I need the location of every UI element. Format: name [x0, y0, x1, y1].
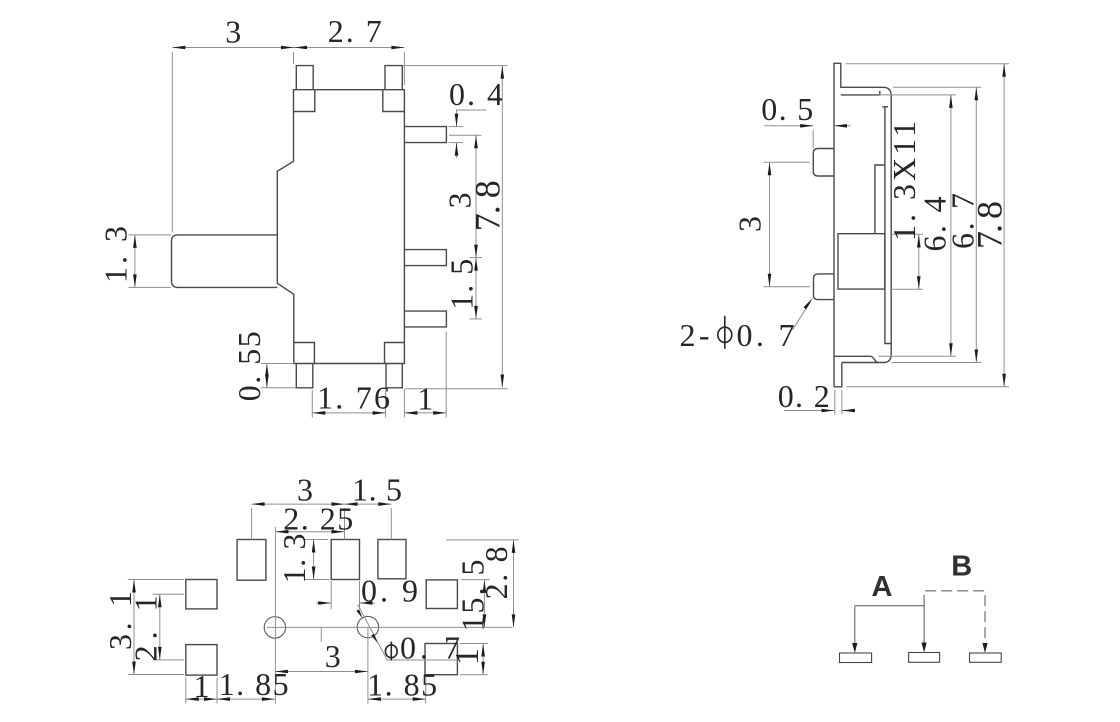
svg-text:1. 85: 1. 85 — [367, 667, 437, 703]
svg-text:1: 1 — [417, 380, 433, 416]
svg-text:1. 3: 1. 3 — [276, 534, 312, 584]
svg-text:2. 8: 2. 8 — [478, 546, 514, 599]
svg-text:A: A — [872, 571, 893, 603]
svg-text:0. 4: 0. 4 — [449, 76, 503, 112]
svg-text:2. 25: 2. 25 — [283, 500, 353, 536]
svg-text:1. 5: 1. 5 — [352, 471, 402, 507]
svg-text:0. 5: 0. 5 — [761, 91, 813, 127]
svg-text:1. 85: 1. 85 — [219, 666, 289, 702]
svg-text:0. 55: 0. 55 — [231, 331, 267, 401]
svg-text:2. 7: 2. 7 — [328, 13, 382, 49]
svg-text:0. 7: 0. 7 — [737, 317, 795, 353]
svg-text:2-: 2- — [680, 317, 710, 353]
svg-text:1: 1 — [449, 648, 486, 665]
svg-text:3: 3 — [325, 638, 341, 674]
svg-text:1. 76: 1. 76 — [317, 379, 390, 415]
svg-text:7. 8: 7. 8 — [467, 180, 507, 231]
svg-text:7. 8: 7. 8 — [970, 201, 1010, 249]
svg-text:3: 3 — [225, 13, 241, 49]
svg-text:1. 3: 1. 3 — [98, 226, 134, 283]
svg-text:0. 2: 0. 2 — [778, 378, 830, 414]
svg-text:B: B — [951, 551, 972, 583]
svg-text:1: 1 — [194, 668, 210, 704]
svg-text:3: 3 — [732, 216, 768, 232]
svg-text:1. 5: 1. 5 — [444, 259, 480, 310]
